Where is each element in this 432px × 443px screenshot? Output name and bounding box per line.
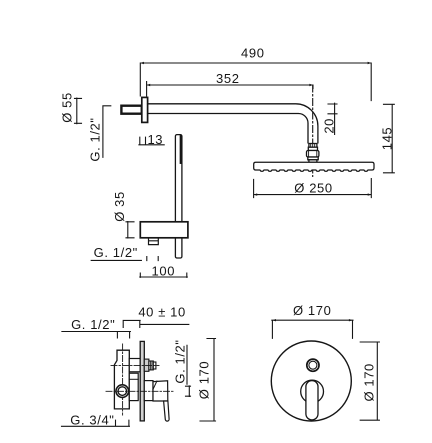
dimension 352 end arrows bbox=[147, 84, 313, 86]
dimension D170 side bbox=[200, 339, 216, 422]
svg-text:40 ± 10: 40 ± 10 bbox=[138, 305, 185, 320]
label G12 mixer right leader bbox=[186, 345, 191, 396]
svg-text:G. 1/2": G. 1/2" bbox=[173, 339, 188, 383]
mixer horizontal centerline bbox=[106, 390, 174, 392]
svg-text:490: 490 bbox=[241, 46, 265, 61]
front view main circle bbox=[271, 341, 351, 421]
svg-text:G. 1/2": G. 1/2" bbox=[87, 117, 102, 161]
handle hub bbox=[144, 381, 153, 401]
svg-text:Ø 170: Ø 170 bbox=[362, 363, 377, 401]
dimension 490 line bbox=[140, 63, 371, 101]
wall flange bbox=[142, 97, 148, 122]
slider bar bbox=[175, 135, 182, 258]
label D55 bracket bbox=[75, 98, 82, 124]
svg-text:145: 145 bbox=[379, 127, 394, 151]
dimension 13 bbox=[139, 137, 164, 145]
dimension D170 top (front view) bbox=[272, 320, 353, 338]
label G12 holder underline bbox=[91, 257, 158, 261]
escutcheon plate bbox=[140, 341, 144, 421]
dimension D250 bbox=[254, 179, 372, 198]
connector thread hatches bbox=[309, 144, 317, 157]
svg-text:Ø 35: Ø 35 bbox=[112, 191, 127, 222]
shower head slab with nozzle teeth bbox=[254, 162, 374, 171]
holder box bbox=[140, 222, 188, 238]
svg-text:352: 352 bbox=[216, 71, 240, 86]
dimension 100 bbox=[140, 273, 188, 277]
svg-text:13: 13 bbox=[147, 132, 163, 147]
mixer body bbox=[114, 350, 129, 409]
label G12 mixer top leader bbox=[62, 332, 130, 339]
label G34 mixer bottom leader bbox=[62, 420, 130, 426]
top thread bbox=[149, 361, 153, 370]
mixer body vertical centerline bbox=[122, 344, 124, 415]
wall thread stub bbox=[121, 106, 141, 114]
connector nut stack bbox=[307, 144, 319, 163]
dimension 40+-10 lines bbox=[123, 320, 189, 327]
handle lever bar bbox=[306, 381, 318, 420]
svg-text:100: 100 bbox=[152, 264, 176, 279]
svg-text:Ø 170: Ø 170 bbox=[293, 303, 331, 318]
svg-text:G. 1/2": G. 1/2" bbox=[94, 245, 138, 260]
top end cap bbox=[153, 362, 156, 369]
svg-text:Ø 55: Ø 55 bbox=[60, 92, 75, 123]
dimension D170 right (front view) bbox=[360, 342, 379, 420]
svg-text:G. 1/2": G. 1/2" bbox=[71, 317, 115, 332]
diverter button bbox=[307, 359, 319, 371]
dimension 145 bbox=[384, 104, 395, 173]
label D35 bracket bbox=[126, 222, 134, 239]
holder nub bbox=[149, 238, 159, 245]
shower arm pipe with elbow bbox=[148, 104, 318, 143]
dimension 352 line bbox=[147, 82, 313, 97]
dimension 20 (pipe diameter) bbox=[328, 103, 337, 134]
label G12 arm leader bbox=[103, 106, 111, 158]
centerline of drop pipe (dash-dot) bbox=[312, 85, 314, 177]
top nipple bbox=[144, 359, 149, 371]
lever chamfer bbox=[153, 381, 157, 390]
svg-text:Ø 170: Ø 170 bbox=[197, 361, 212, 399]
top port centerline bbox=[111, 364, 159, 366]
dimension D250 arrows bbox=[254, 193, 372, 195]
handle pivot circle bbox=[301, 380, 324, 403]
lever head bbox=[153, 381, 168, 401]
svg-text:20: 20 bbox=[321, 118, 336, 134]
mixer cartridge bbox=[129, 373, 138, 400]
dimension 490 end arrows bbox=[140, 62, 371, 64]
mixer body circle bbox=[116, 385, 129, 398]
svg-text:G. 3/4": G. 3/4" bbox=[70, 413, 114, 428]
lever arm bbox=[164, 401, 170, 421]
mixer top port bbox=[129, 359, 140, 372]
svg-text:Ø 250: Ø 250 bbox=[294, 181, 332, 196]
